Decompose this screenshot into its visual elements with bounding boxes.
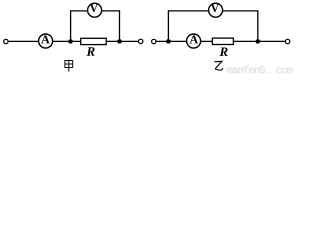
- label yi: [214, 61, 223, 70]
- wire top left: [70, 10, 88, 12]
- voltmeter V2 letter: [211, 5, 219, 13]
- wire top right: [223, 10, 259, 12]
- ammeter A2: [187, 34, 201, 48]
- voltmeter V1 letter: [90, 5, 98, 13]
- terminal left: [4, 39, 8, 43]
- wire vertical left: [167, 11, 169, 42]
- wire resistor to terminal: [106, 40, 138, 42]
- node junction right: [255, 39, 260, 44]
- wire ammeter to node: [53, 40, 81, 42]
- voltmeter V1: [88, 3, 102, 17]
- node junction left: [68, 39, 73, 44]
- ammeter A1: [39, 34, 53, 48]
- terminal right: [285, 39, 289, 43]
- wire resistor to terminal: [233, 40, 285, 42]
- label R1: [87, 47, 95, 56]
- wire vertical right: [257, 11, 259, 42]
- wire top left: [168, 10, 209, 12]
- label R2: [220, 47, 228, 56]
- terminal right: [139, 39, 143, 43]
- node junction right: [117, 39, 122, 44]
- node junction left: [166, 39, 171, 44]
- wire vertical left: [70, 11, 72, 42]
- ammeter A2 letter: [190, 35, 199, 43]
- wire vertical right: [119, 11, 121, 42]
- wire left to ammeter: [8, 40, 39, 42]
- wire terminal to ammeter: [156, 40, 187, 42]
- wire ammeter to resistor: [201, 40, 213, 42]
- resistor R1: [81, 38, 107, 44]
- terminal left: [152, 39, 156, 43]
- label jia: [65, 61, 73, 72]
- watermark manfen5.com: [227, 65, 293, 73]
- resistor R2: [212, 38, 233, 44]
- wire top right: [102, 10, 121, 12]
- voltmeter V2: [209, 3, 223, 17]
- ammeter A1 letter: [41, 35, 50, 43]
